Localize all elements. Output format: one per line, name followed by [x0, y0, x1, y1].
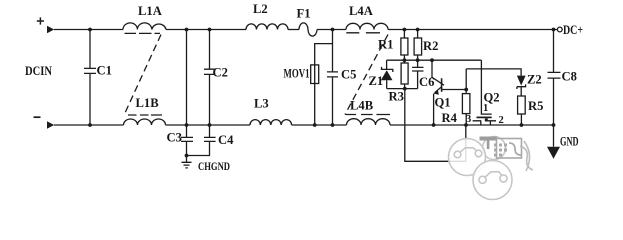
watermark trace 2 [484, 172, 503, 178]
L1B core dashes [128, 114, 162, 116]
watermark logo [449, 137, 534, 200]
svg-text:R5: R5 [528, 99, 543, 113]
capacitor C3 [181, 125, 193, 162]
svg-text:DCIN: DCIN [25, 64, 52, 78]
inductor L2 [246, 24, 288, 30]
wire riser to C3 [186, 30, 188, 126]
svg-text:C5: C5 [341, 68, 356, 82]
L1A core dashes [125, 32, 161, 34]
wire loop below rail [405, 89, 466, 162]
resistor R2 [417, 30, 419, 39]
wire node A (R1/R2 bottom bus) [387, 59, 482, 61]
wire C5 riser [332, 30, 334, 126]
svg-text:C1: C1 [97, 64, 112, 78]
svg-text:L1B: L1B [136, 96, 160, 110]
wire top rail [317, 29, 346, 31]
inductor L3 [250, 120, 292, 125]
varistor MOV1 [311, 65, 319, 84]
svg-text:R2: R2 [423, 39, 438, 53]
watermark trace 1 [459, 148, 478, 153]
svg-text:L4A: L4A [349, 4, 373, 18]
transistor Q2 [481, 60, 491, 114]
svg-text:C4: C4 [218, 133, 234, 147]
svg-text:DC+: DC+ [563, 23, 583, 37]
svg-text:F1: F1 [297, 7, 311, 21]
resistor R1 [403, 30, 405, 39]
inductor L1B [124, 119, 166, 125]
L4A core dashes [346, 32, 380, 34]
svg-text:CHGND: CHGND [198, 161, 230, 173]
resistor R5 [518, 96, 526, 114]
wire top rail [166, 29, 246, 31]
choke coupling dashed diagonal L4A-L4B [345, 35, 388, 115]
watermark glyph box [497, 139, 522, 159]
svg-text:C6: C6 [419, 75, 434, 89]
capacitor C2 [204, 30, 215, 126]
choke coupling dashed diagonal L1A-L1B [125, 35, 162, 115]
svg-text:L1A: L1A [138, 4, 162, 18]
ground GND arrow [553, 125, 555, 147]
svg-text:R4: R4 [442, 111, 458, 125]
capacitor C1 [84, 30, 96, 126]
fuse F1 [299, 23, 317, 36]
svg-text:C3: C3 [167, 131, 182, 145]
inductor L4A [346, 23, 388, 29]
label + [37, 17, 44, 24]
zener Z1 [386, 60, 388, 69]
wire node C riser (R4/Q1 base) [465, 69, 467, 90]
svg-text:L3: L3 [254, 97, 269, 111]
svg-text:3: 3 [466, 114, 471, 125]
svg-text:Q1: Q1 [435, 96, 451, 110]
wire top rail left [54, 29, 123, 31]
svg-text:2: 2 [499, 115, 504, 126]
capacitor C8 [548, 30, 561, 126]
wire MOV1 branch [315, 44, 333, 125]
wire top rail [288, 29, 299, 31]
svg-text:Z1: Z1 [369, 74, 384, 88]
wire bottom rail left [54, 124, 124, 126]
resistor R4 [465, 90, 467, 94]
svg-text:MOV1: MOV1 [284, 67, 310, 81]
watermark circle 2 [473, 161, 512, 200]
capacitor C6 [412, 60, 423, 88]
svg-text:L4B: L4B [350, 99, 374, 113]
svg-text:R3: R3 [389, 90, 404, 104]
watermark circle 3 [483, 137, 506, 160]
watermark swirl [509, 143, 521, 155]
svg-text:GND: GND [560, 135, 579, 149]
node - terminal arrow [47, 121, 54, 128]
resistor R3 [404, 60, 406, 63]
node + terminal arrow [47, 26, 54, 33]
wire bottom rail right [390, 124, 554, 126]
watermark pads grid [494, 144, 507, 157]
chassis ground CHGND [182, 162, 192, 168]
svg-text:1: 1 [483, 103, 488, 114]
L4B core dashes [346, 114, 391, 116]
transistor Q1 [432, 60, 444, 85]
watermark circle 1 [449, 139, 486, 176]
wire node B (Z1/R3/C6 bottom) [387, 88, 418, 90]
label - [34, 116, 41, 118]
zener Z2 [517, 76, 526, 86]
svg-text:C2: C2 [213, 66, 228, 80]
wire top rail right [388, 29, 557, 31]
wire bottom rail [292, 124, 347, 126]
wire bottom rail [166, 124, 251, 126]
capacitor C4 [187, 125, 216, 156]
svg-text:C8: C8 [562, 70, 577, 84]
inductor L1A [123, 23, 166, 30]
capacitor C5 [327, 72, 338, 77]
svg-text:Z2: Z2 [527, 73, 542, 87]
watermark glyph bar [480, 137, 498, 141]
inductor L4B [347, 119, 391, 125]
svg-text:L2: L2 [253, 2, 268, 16]
wire node C bus (to Z2) [466, 69, 521, 76]
svg-text:R1: R1 [378, 38, 393, 52]
terminal DC+ open circle [557, 27, 562, 32]
